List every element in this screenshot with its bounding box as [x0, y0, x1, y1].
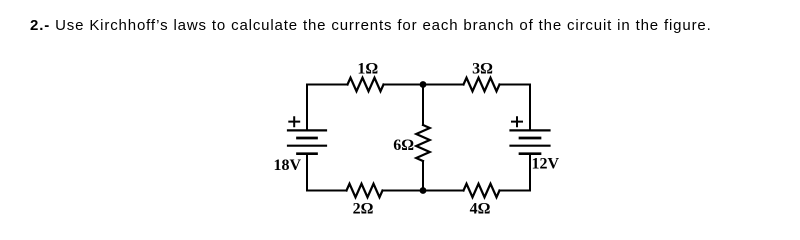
resistor R4 2ohm zigzag	[347, 184, 383, 198]
junction node dot top	[420, 81, 427, 88]
battery V2 short plate 1	[520, 137, 540, 140]
junction node dot bottom	[420, 187, 427, 194]
battery V1 short plate 1	[298, 137, 317, 140]
battery V1 long plate 1	[288, 129, 326, 131]
wire top-right segment	[500, 84, 531, 86]
wire bottom-left segment	[307, 190, 347, 192]
svg-text:4Ω: 4Ω	[470, 201, 491, 218]
wire left vertical upper	[306, 85, 308, 131]
resistor R5 4ohm zigzag	[464, 184, 500, 198]
battery V1 short plate 2	[298, 152, 317, 155]
problem statement text	[30, 17, 712, 34]
resistor R2 3ohm zigzag	[464, 78, 500, 92]
svg-text:2Ω: 2Ω	[353, 201, 374, 218]
wire right vertical lower	[529, 154, 531, 191]
resistor R1 1ohm zigzag	[348, 78, 384, 92]
wire bottom-middle segment	[383, 190, 464, 192]
wire middle vertical lower	[422, 161, 424, 191]
svg-text:18V: 18V	[273, 157, 301, 174]
svg-text:12V: 12V	[532, 156, 560, 173]
wire right vertical upper	[529, 85, 531, 131]
svg-text:1Ω: 1Ω	[357, 61, 378, 78]
resistor R3 6ohm zigzag	[416, 125, 430, 161]
wire middle vertical upper	[422, 85, 424, 126]
svg-text:6Ω: 6Ω	[393, 137, 414, 154]
battery V2 long plate 1	[511, 129, 550, 131]
plus sign of battery V2	[511, 116, 523, 127]
wire left vertical lower	[306, 154, 308, 191]
svg-text:3Ω: 3Ω	[472, 61, 493, 78]
wire bottom-right segment	[500, 190, 531, 192]
battery V2 short plate 2	[520, 152, 540, 155]
wire top-left segment	[307, 84, 348, 86]
battery V1 long plate 2	[288, 145, 326, 147]
plus sign of battery V1	[288, 116, 300, 127]
wire top-middle segment	[384, 84, 464, 86]
battery V2 long plate 2	[511, 145, 550, 147]
